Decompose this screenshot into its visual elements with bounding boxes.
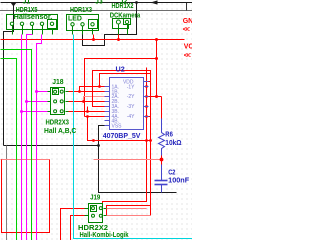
svg-text:-2Y: -2Y [127,94,135,100]
wire -4Y stub [144,116,151,118]
node junction -1Y branch [155,95,158,98]
wire R6 to C2 rail [94,159,162,161]
wire -3Y down right column [144,106,147,108]
svg-text:-4Y: -4Y [127,114,135,120]
node junction outer loop [155,57,158,60]
svg-text:J19: J19 [90,195,100,202]
node junction magenta row3 [20,110,23,113]
wire hall pin2 magenta [21,35,23,240]
wire magenta to J18 row2 [27,101,48,103]
svg-text:LED: LED [68,14,82,23]
node junction row1 [78,90,81,93]
wire J18 row3 to 3B [69,111,105,113]
node junction y141 [145,139,148,142]
wire 2A loop [84,97,105,102]
wire gray GND stub to bottom edge [6,146,8,240]
svg-text:Hallsensor.: Hallsensor. [14,12,53,21]
wire J19 left bottom [71,216,85,240]
wire hall pin3 magenta [27,35,33,240]
capacitor C2 [161,160,163,165]
wire bottom-left loop [2,160,50,233]
connector J18 HDR2X3 Hall A,B,C [48,88,69,115]
node junction -4Y [145,115,148,118]
wire LED pin3 to VCC [93,35,95,40]
node junction GND bus [135,1,138,4]
wire 4A input [85,116,105,118]
svg-text:GND: GND [183,18,192,25]
connector J2 HDR1X2 DCKamera [113,19,131,35]
wire VCC riser to R6 [156,40,158,97]
sheet border gray line [0,10,192,12]
wire J1 pin1 to GND bus [4,3,14,146]
wire salmon left net [1,159,50,161]
wire drop to y140 rail [88,117,151,141]
svg-text:-1Y: -1Y [127,84,135,90]
node junction magenta row2 [25,100,28,103]
wire magenta to J18 row1 [37,91,48,93]
node junction R6 bottom [160,158,164,162]
node junction y141 end [149,139,152,142]
grid dots [0,0,192,240]
wire J19 top right salmon [104,208,147,210]
svg-text:J1: J1 [23,0,31,6]
frame tick [186,3,188,11]
resistor R6 [161,97,163,119]
svg-text:VSS: VSS [112,124,123,130]
svg-text:10kΩ: 10kΩ [165,140,182,147]
wire green B from left edge [1,59,17,240]
wire -4Y loop [107,74,151,216]
wire outer loop top [85,59,157,117]
wire 3A VDD line [93,71,151,107]
wire magenta to J18 row3 [22,111,48,113]
svg-text:100nF: 100nF [168,177,190,184]
connector J1 HDR1X5 Hallsensor [7,15,58,35]
node GND arrow [11,3,17,7]
node junction VCC riser [155,38,158,41]
svg-text:HDR2X2: HDR2X2 [78,225,108,232]
wire J18 row2 to 2B [69,101,105,103]
svg-text:-3Y: -3Y [127,104,135,110]
wire DCKamera pin1 to VCC [118,35,120,40]
op-amp U2 4070BP_5V body [103,67,149,140]
svg-text:Hall A,B,C: Hall A,B,C [44,128,76,135]
wire -1Y branch to R6 column [144,96,162,98]
connector J19 HDR2X2 Hall-Kombi-Logik [85,204,107,223]
wire J19 left top to bottom edge [61,209,85,240]
svg-text:J18: J18 [52,79,63,86]
wire cyan LED pin1 [74,35,193,239]
svg-text:DCKamera: DCKamera [110,13,141,20]
svg-text:<<: << [183,27,190,34]
wire VCC bus [1,39,185,41]
node junction DCKamera pin1 [117,38,120,41]
pin stubs U2 left [105,82,149,126]
wire GND bottom rail [4,145,99,147]
wire row3 riser [87,107,89,112]
wire DCKamera pin2 GND [83,3,137,46]
svg-text:<<: << [184,53,191,60]
wire U2 VSS to GND rail [99,126,177,193]
svg-text:R6: R6 [165,132,173,139]
wire -1Y down right column [144,86,147,88]
svg-text:Hall-Kombi-Logik: Hall-Kombi-Logik [80,232,129,239]
wire J19 bottom right salmon [104,215,151,217]
svg-text:U2: U2 [116,67,125,74]
svg-text:J3: J3 [95,0,103,6]
node junction VSS rail [97,144,100,147]
wire green A from left edge [1,50,32,240]
wire hall pin4 magenta [37,35,42,240]
pin names U2 [112,80,136,130]
svg-text:4070BP_5V: 4070BP_5V [103,131,141,140]
node junction row3 [86,110,89,113]
wire 1A loop [80,87,105,92]
node junction LED pin3 [92,38,95,41]
svg-text:HDR1X2: HDR1X2 [112,3,134,10]
node junction row2 [82,100,85,103]
pin stubs U2 right [144,81,149,83]
node junction magenta row1 [35,90,38,93]
wire J18 row1 to 1B [69,91,105,93]
svg-text:HDR2X3: HDR2X3 [46,120,70,127]
wire right loop column A [103,68,147,209]
svg-text:C2: C2 [168,170,175,177]
connector J3 HDR1X3 LED [67,15,99,35]
wire GND top bus [1,2,193,4]
svg-text:VCC: VCC [184,44,192,51]
node GND bus left arrow [151,0,158,4]
wire corner net to 1A [100,74,151,87]
